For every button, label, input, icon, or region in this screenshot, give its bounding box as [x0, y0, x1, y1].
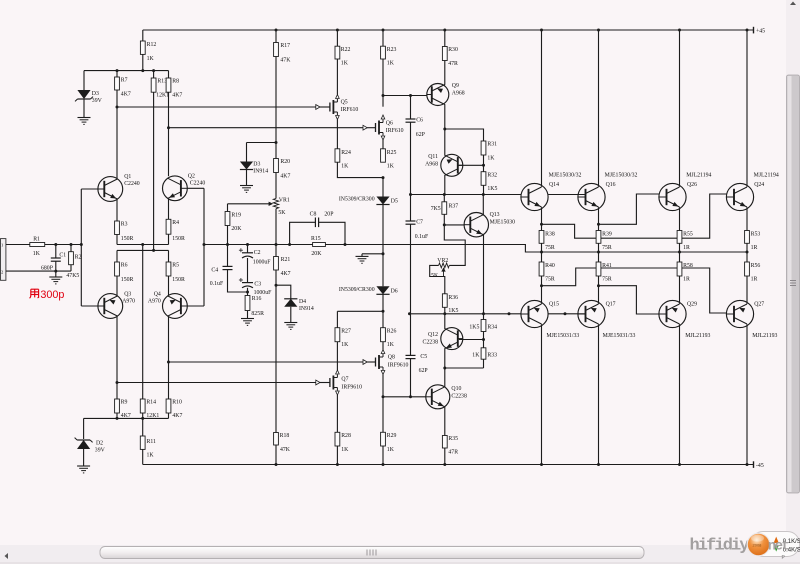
- svg-text:VR1: VR1: [279, 197, 290, 203]
- wire Q17 emitter to Q29 base: [597, 284, 600, 287]
- svg-text:MJL21193: MJL21193: [685, 333, 710, 339]
- resistor R12: [142, 30, 144, 41]
- wire VR1 to output rail: [275, 209, 277, 245]
- wire R21 to R18 column: [275, 270, 277, 433]
- svg-text:150R: 150R: [121, 236, 134, 242]
- wire Q5 gate row: [117, 106, 320, 108]
- svg-text:0.1uF: 0.1uF: [415, 234, 429, 240]
- wire R7 to Q1 collector: [116, 90, 118, 179]
- svg-text:C7: C7: [416, 220, 423, 226]
- svg-text:20P: 20P: [324, 212, 333, 218]
- wire bias chain upper: [275, 57, 277, 159]
- svg-text:1K5: 1K5: [487, 186, 497, 192]
- svg-text:R5: R5: [172, 262, 179, 268]
- svg-text:C2240: C2240: [124, 181, 140, 187]
- svg-text:R16: R16: [252, 296, 262, 302]
- wire D3 row: [247, 142, 277, 144]
- mosfet Q5 IRF610: [336, 59, 338, 95]
- svg-text:12K1: 12K1: [156, 93, 169, 99]
- svg-text:Q11: Q11: [428, 154, 438, 160]
- diode D3 IN914: [246, 143, 248, 162]
- wire column x598.5 top: [598, 30, 600, 187]
- svg-text:Q14: Q14: [549, 182, 559, 188]
- wire R8 to Q2 collector: [168, 92, 170, 176]
- svg-text:Q12: Q12: [428, 332, 438, 338]
- svg-text:R24: R24: [341, 150, 351, 156]
- svg-text:75R: 75R: [602, 277, 612, 283]
- svg-text:IN914: IN914: [299, 306, 314, 312]
- transistor Q14: [521, 183, 548, 210]
- svg-text:R32: R32: [487, 172, 497, 178]
- svg-text:R6: R6: [121, 262, 128, 268]
- transistor Q11: [441, 154, 463, 176]
- svg-text:IRF9610: IRF9610: [341, 384, 362, 390]
- svg-text:R1: R1: [33, 236, 40, 242]
- transistor Q2: [163, 176, 188, 201]
- svg-text:R25: R25: [387, 150, 397, 156]
- resistor R36: [442, 294, 447, 308]
- svg-text:C2238: C2238: [451, 393, 467, 399]
- svg-text:1K: 1K: [341, 164, 349, 170]
- wire Q13 collector: [482, 195, 484, 215]
- svg-text:Q27: Q27: [754, 302, 764, 308]
- resistor R5: [168, 250, 170, 262]
- svg-text:Q13: Q13: [490, 212, 500, 218]
- resistor R20: [274, 159, 279, 173]
- resistor R34: [483, 314, 485, 320]
- node -45 bottom supply rail: [143, 464, 754, 466]
- resistor R13: [153, 71, 155, 78]
- transistor Q15: [521, 300, 548, 327]
- svg-text:Q26: Q26: [687, 182, 697, 188]
- wire R35 to -45 rail: [444, 448, 446, 465]
- resistor R31: [481, 141, 486, 155]
- transistor Q13: [443, 223, 446, 226]
- svg-text:1000uF: 1000uF: [254, 290, 272, 296]
- svg-text:20K: 20K: [311, 251, 322, 257]
- svg-text:Q17: Q17: [606, 302, 616, 308]
- wire D6 to R27 R26 row: [337, 310, 383, 312]
- wire Q10 emitter to R35: [444, 407, 446, 436]
- svg-text:D3: D3: [253, 162, 260, 168]
- svg-text:MJE15030/32: MJE15030/32: [549, 172, 582, 178]
- svg-text:62P: 62P: [416, 132, 425, 138]
- svg-text:R38: R38: [545, 231, 555, 237]
- svg-text:C3: C3: [254, 281, 261, 287]
- svg-text:R4: R4: [172, 220, 179, 226]
- svg-text:1R: 1R: [683, 277, 690, 283]
- svg-text:4K7: 4K7: [172, 93, 182, 99]
- svg-text:C6: C6: [416, 118, 423, 124]
- diode D6 1N5309: [382, 254, 384, 286]
- wire Q7 to R28: [336, 395, 338, 432]
- svg-text:R21: R21: [281, 257, 291, 263]
- svg-text:1K: 1K: [341, 342, 349, 348]
- svg-text:4K7: 4K7: [280, 173, 290, 179]
- wire R34 R33 junction to Q12: [483, 332, 485, 348]
- potentiometer VR2: [439, 263, 450, 268]
- svg-text:2: 2: [1, 269, 3, 274]
- svg-text:D3: D3: [92, 91, 99, 97]
- resistor R1: [30, 243, 45, 247]
- svg-text:IRF9610: IRF9610: [388, 363, 409, 369]
- svg-text:R17: R17: [280, 43, 290, 49]
- svg-text:R12: R12: [147, 42, 157, 48]
- svg-text:47R: 47R: [448, 450, 458, 456]
- svg-text:D4: D4: [299, 299, 306, 305]
- svg-text:R23: R23: [387, 47, 397, 53]
- resistor R33: [481, 348, 486, 359]
- transistor Q27: [726, 300, 753, 327]
- svg-text:net: net: [768, 539, 790, 555]
- resistor R27: [336, 311, 338, 327]
- capacitor C7: [406, 220, 416, 222]
- svg-text:47K: 47K: [280, 57, 291, 63]
- mosfet Q8 IRF9610: [382, 342, 384, 350]
- note red annotation 300p: [30, 289, 39, 298]
- svg-text:R33: R33: [487, 352, 497, 358]
- svg-text:75R: 75R: [602, 245, 612, 251]
- wire Q14 Q16 base link: [548, 194, 585, 196]
- wire Q14 emitter to Q24 base: [540, 223, 543, 226]
- svg-text:R22: R22: [341, 47, 351, 53]
- wire R36 to bias row: [444, 307, 446, 314]
- wire Q11 collector to VAS row: [444, 129, 446, 156]
- svg-text:1K5: 1K5: [448, 308, 458, 314]
- resistor R22: [336, 30, 338, 46]
- resistor R37 7K5: [443, 195, 445, 202]
- svg-text:300p: 300p: [40, 289, 64, 301]
- svg-text:Q9: Q9: [452, 83, 459, 89]
- svg-text:R40: R40: [545, 263, 555, 269]
- resistor R35: [442, 436, 447, 449]
- svg-text:Q1: Q1: [124, 174, 131, 180]
- transistor Q3: [98, 294, 123, 319]
- transistor Q10: [426, 385, 450, 409]
- transistor Q24: [726, 183, 753, 210]
- wire Q15 Q17 base link: [548, 313, 585, 315]
- resistor R8: [168, 71, 170, 78]
- svg-text:R26: R26: [387, 329, 397, 335]
- svg-text:R14: R14: [146, 399, 156, 405]
- wire Q12 collector: [444, 314, 446, 329]
- svg-text:MJE15031/33: MJE15031/33: [546, 333, 579, 339]
- svg-text:R36: R36: [448, 295, 458, 301]
- svg-text:Q29: Q29: [687, 302, 697, 308]
- resistor R19: [227, 204, 229, 212]
- resistor R26: [382, 311, 384, 327]
- wire input node column: [80, 189, 82, 306]
- svg-text:C8: C8: [310, 212, 317, 218]
- svg-text:hifidiy: hifidiy: [690, 537, 750, 556]
- svg-text:R37: R37: [449, 204, 459, 210]
- svg-text:0.1uF: 0.1uF: [210, 281, 224, 287]
- svg-text:R20: R20: [280, 159, 290, 165]
- svg-text:1K: 1K: [33, 251, 41, 257]
- svg-text:R34: R34: [487, 324, 497, 330]
- svg-text:1K: 1K: [472, 352, 480, 358]
- resistor R18: [274, 433, 279, 446]
- svg-text:Q5: Q5: [341, 100, 348, 106]
- node +45 top supply rail: [143, 29, 754, 31]
- zener D3 39V: [83, 71, 85, 90]
- ground below D4: [284, 322, 297, 324]
- svg-text:R28: R28: [341, 433, 351, 439]
- vertical scrollbar: [786, 0, 800, 545]
- svg-text:150R: 150R: [121, 277, 134, 283]
- svg-text:+45: +45: [756, 29, 765, 35]
- wire feedback node column: [203, 188, 205, 306]
- ground below D2: [77, 465, 90, 467]
- svg-text:R15: R15: [311, 236, 321, 242]
- wire Q12 emitter row: [483, 359, 485, 368]
- svg-text:Q8: Q8: [388, 355, 395, 361]
- wire Q10 collector: [444, 368, 446, 387]
- svg-text:R39: R39: [602, 231, 612, 237]
- capacitor C2 1000uF: [247, 245, 249, 253]
- mosfet Q6 IRF610: [375, 123, 377, 132]
- resistor R28: [335, 432, 340, 446]
- svg-text:MJL21193: MJL21193: [752, 333, 777, 339]
- svg-text:R55: R55: [683, 231, 693, 237]
- resistor R21: [275, 245, 277, 257]
- wire Q8 gate row: [169, 361, 368, 363]
- wire Q8 to R29: [382, 375, 384, 433]
- wire Q10 base row: [383, 396, 426, 398]
- svg-text:Q15: Q15: [549, 302, 559, 308]
- svg-text:MJL21194: MJL21194: [686, 172, 711, 178]
- wire column x679.5 top: [679, 30, 681, 187]
- capacitor C1: [55, 245, 57, 259]
- svg-text:D2: D2: [96, 441, 103, 447]
- wire Q4 collector column: [168, 316, 170, 399]
- svg-text:C2: C2: [254, 250, 261, 256]
- svg-text:A968: A968: [452, 90, 465, 96]
- horizontal scrollbar: [0, 545, 800, 564]
- wire Q9 base row: [383, 95, 427, 97]
- network speed indicator overlay: [751, 532, 800, 557]
- resistor R25: [381, 149, 386, 162]
- potentiometer VR1: [275, 173, 277, 199]
- wire Q9 collector row: [444, 104, 446, 129]
- resistor R15: [313, 243, 326, 247]
- capacitor C6: [410, 96, 412, 120]
- svg-text:R8: R8: [172, 79, 179, 85]
- svg-text:1: 1: [1, 243, 3, 248]
- wire column x541.5 top: [541, 30, 543, 187]
- svg-text:150R: 150R: [172, 277, 185, 283]
- resistor R3: [116, 200, 118, 222]
- svg-text:-45: -45: [756, 463, 764, 469]
- svg-text:D5: D5: [391, 198, 398, 204]
- svg-text:R41: R41: [602, 263, 612, 269]
- transistor Q1: [98, 177, 123, 202]
- svg-text:Q7: Q7: [341, 376, 348, 382]
- transistor Q16: [578, 183, 605, 210]
- resistor R23: [382, 30, 384, 46]
- svg-text:4K7: 4K7: [281, 271, 291, 277]
- svg-text:62P: 62P: [419, 368, 428, 374]
- svg-text:1K: 1K: [387, 164, 395, 170]
- wire upper tail row: [117, 244, 169, 246]
- transistor Q26: [659, 183, 686, 210]
- wire lower bias row: [410, 313, 522, 315]
- resistor R4: [168, 199, 170, 220]
- svg-text:C2238: C2238: [423, 340, 439, 346]
- wire R1 to input node: [45, 244, 82, 246]
- svg-text:R11: R11: [147, 439, 157, 445]
- svg-text:1K: 1K: [387, 61, 395, 67]
- svg-text:C4: C4: [211, 268, 218, 274]
- svg-text:75R: 75R: [545, 245, 555, 251]
- diode D5 1N5309: [382, 178, 384, 197]
- wire R29 to -45 rail: [382, 446, 384, 465]
- svg-text:7K5: 7K5: [431, 206, 441, 212]
- svg-text:4K7: 4K7: [121, 91, 131, 97]
- resistor R17: [275, 30, 277, 43]
- svg-text:IN5309/CR300: IN5309/CR300: [339, 287, 375, 293]
- svg-text:2008: 2008: [753, 543, 763, 548]
- ground below D3: [78, 117, 91, 119]
- svg-text:1K: 1K: [341, 61, 349, 67]
- diode D4 IN914: [276, 285, 291, 299]
- svg-text:C5: C5: [420, 354, 427, 360]
- resistor R14: [140, 399, 145, 413]
- svg-text:VR2: VR2: [437, 258, 448, 264]
- wire R13 to lower tail row: [153, 92, 155, 250]
- transistor Q4: [163, 294, 188, 319]
- svg-text:Q6: Q6: [386, 121, 393, 127]
- wire column x747 top: [746, 30, 748, 187]
- svg-text:5K: 5K: [431, 273, 439, 279]
- svg-text:1R: 1R: [751, 277, 758, 283]
- svg-text:1K: 1K: [387, 447, 395, 453]
- wire Q3 collector column: [116, 316, 118, 399]
- wire Q16 emitter to Q26 base: [597, 223, 600, 226]
- svg-text:47R: 47R: [448, 61, 458, 67]
- svg-text:R9: R9: [121, 399, 128, 405]
- wire R24 R25 junction to D5: [337, 162, 383, 177]
- wire VAS output row: [411, 194, 522, 196]
- resistor R10: [166, 399, 171, 413]
- svg-text:39V: 39V: [95, 448, 106, 454]
- svg-text:A968: A968: [425, 161, 438, 167]
- wire R23 to Q6: [382, 59, 384, 107]
- wire Q5 source to R24: [336, 120, 338, 149]
- ground below R16: [247, 311, 249, 319]
- svg-text:1R: 1R: [751, 245, 758, 251]
- svg-text:R56: R56: [751, 263, 761, 269]
- svg-text:1K: 1K: [147, 56, 155, 62]
- svg-text:Q24: Q24: [754, 182, 764, 188]
- resistor R9: [115, 399, 120, 413]
- capacitor C5: [410, 314, 412, 356]
- wire VR2 to R36: [430, 265, 445, 293]
- svg-text:A970: A970: [148, 298, 161, 304]
- svg-text:C1: C1: [59, 253, 66, 259]
- ground at D5 D6 junction: [362, 253, 383, 255]
- svg-text:R18: R18: [280, 433, 290, 439]
- svg-text:MJL21194: MJL21194: [754, 172, 779, 178]
- wire input top: [6, 244, 30, 246]
- svg-text:MJE15030: MJE15030: [490, 220, 516, 226]
- svg-text:1K: 1K: [387, 342, 395, 348]
- zener D2 39V: [83, 418, 85, 439]
- svg-text:1R: 1R: [683, 245, 690, 251]
- svg-text:MJE15030/32: MJE15030/32: [605, 172, 638, 178]
- ground input: [55, 271, 57, 277]
- svg-text:R31: R31: [487, 142, 497, 148]
- wire lower tail row: [117, 249, 169, 251]
- svg-text:1K: 1K: [487, 155, 495, 161]
- svg-text:IN5309/CR300: IN5309/CR300: [339, 196, 375, 202]
- wire input return: [6, 270, 71, 272]
- wire Q6 source to R25: [382, 140, 384, 149]
- wire zener bias bus: [84, 70, 169, 72]
- svg-text:R58: R58: [683, 263, 693, 269]
- resistor R2: [70, 245, 72, 252]
- resistor R32: [481, 172, 486, 186]
- svg-text:R3: R3: [121, 221, 128, 227]
- resistor R30: [444, 30, 446, 47]
- resistor R24: [335, 149, 340, 162]
- svg-text:47K5: 47K5: [66, 273, 79, 279]
- svg-text:A970: A970: [122, 298, 135, 304]
- svg-text:Q3: Q3: [124, 291, 131, 297]
- capacitor C8: [290, 222, 316, 244]
- svg-text:R7: R7: [121, 78, 128, 84]
- svg-text:D6: D6: [391, 289, 398, 295]
- resistor R6: [116, 250, 118, 262]
- svg-text:1000uF: 1000uF: [253, 259, 271, 265]
- svg-text:MJE15031/33: MJE15031/33: [603, 333, 636, 339]
- transistor Q17: [578, 300, 605, 327]
- svg-text:R30: R30: [448, 47, 458, 53]
- connector J1 input: [1, 239, 6, 281]
- wire Q7 gate row: [117, 382, 320, 384]
- resistor R16: [247, 288, 249, 296]
- wire R28 to -45 rail: [336, 446, 338, 465]
- svg-text:680P: 680P: [41, 265, 53, 271]
- capacitor C3 1000uF: [247, 258, 249, 283]
- transistor Q12: [441, 328, 463, 350]
- svg-text:C2240: C2240: [190, 180, 206, 186]
- svg-text:75R: 75R: [545, 277, 555, 283]
- wire R31 R32 junction to Q11: [483, 155, 485, 172]
- transistor Q29: [659, 300, 686, 327]
- wire Q15 emitter to Q27 base: [540, 284, 543, 287]
- svg-text:47K: 47K: [280, 447, 291, 453]
- wire R32 to VAS row: [483, 185, 485, 194]
- svg-text:20K: 20K: [231, 226, 242, 232]
- svg-text:Q16: Q16: [606, 182, 616, 188]
- svg-text:150R: 150R: [172, 236, 185, 242]
- svg-text:R53: R53: [751, 231, 761, 237]
- wire VR1 wiper to R19: [228, 203, 270, 205]
- svg-text:R19: R19: [231, 212, 241, 218]
- svg-text:Q2: Q2: [188, 173, 195, 179]
- svg-text:R29: R29: [387, 433, 397, 439]
- resistor R7: [116, 71, 118, 77]
- resistor R11: [142, 418, 144, 436]
- svg-text:R35: R35: [448, 436, 458, 442]
- svg-text:Q4: Q4: [154, 291, 161, 297]
- capacitor C4: [227, 245, 229, 267]
- wire Q6 gate row: [169, 127, 368, 129]
- wire output feedback rail: [204, 244, 313, 246]
- svg-text:5K: 5K: [278, 210, 286, 216]
- svg-text:1K: 1K: [147, 453, 155, 459]
